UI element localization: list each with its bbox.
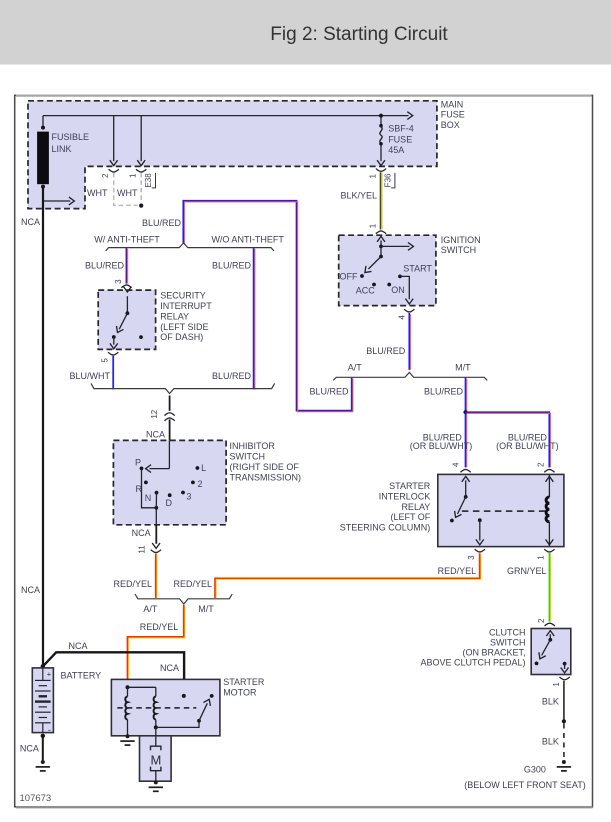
svg-text:SECURITY: SECURITY [160, 291, 206, 301]
svg-text:P: P [135, 457, 141, 467]
wire NCA into inhibitor switch [146, 419, 170, 440]
svg-text:ON: ON [391, 285, 405, 295]
svg-text:4: 4 [398, 315, 407, 320]
wire WHT (right) [117, 173, 141, 203]
connector pin 2 (fuse box, WHT) [101, 169, 119, 178]
svg-text:M/T: M/T [198, 604, 214, 614]
svg-text:5: 5 [101, 358, 110, 363]
svg-text:BLK: BLK [542, 697, 559, 707]
svg-text:(ON BRACKET,: (ON BRACKET, [462, 648, 525, 658]
wire NCA (battery to ground) [20, 734, 45, 760]
connector 11 [137, 545, 161, 554]
svg-text:Fig 2: Starting Circuit: Fig 2: Starting Circuit [270, 24, 448, 45]
ground (battery) [36, 760, 50, 771]
svg-text:11: 11 [137, 545, 146, 554]
svg-text:ABOVE CLUTCH PEDAL): ABOVE CLUTCH PEDAL) [420, 658, 525, 668]
svg-text:W/O ANTI-THEFT: W/O ANTI-THEFT [211, 234, 284, 244]
fuse SBF-4 45A [377, 114, 414, 166]
svg-text:RED/YEL: RED/YEL [113, 579, 152, 589]
ignition switch (dashed box) [339, 235, 481, 305]
node: WHT junction [139, 204, 143, 208]
svg-text:2: 2 [537, 618, 546, 623]
connector pin 1 (fuse box, WHT) [129, 169, 147, 178]
connector pin 4 (ignition switch) [398, 309, 415, 320]
svg-text:STARTER: STARTER [223, 677, 265, 687]
svg-text:NCA: NCA [132, 528, 151, 538]
svg-text:BLU/RED: BLU/RED [366, 346, 406, 356]
wire BLK/YEL (fuse to ignition switch) [340, 172, 381, 229]
svg-text:(RIGHT SIDE OF: (RIGHT SIDE OF [230, 462, 300, 472]
interlock relay coil [546, 474, 554, 546]
svg-text:107673: 107673 [20, 793, 52, 804]
wire BLU/RED (feed loop to anti-theft brace and ignition A/T branch) [142, 201, 353, 412]
svg-text:NCA: NCA [146, 430, 165, 440]
svg-text:SBF-4: SBF-4 [388, 124, 414, 134]
svg-text:BLK/YEL: BLK/YEL [340, 190, 377, 200]
svg-text:(OR BLU/WHT): (OR BLU/WHT) [410, 441, 473, 451]
wire WHT (left) [87, 173, 137, 206]
wire RED/YEL (to starter motor) [128, 605, 186, 679]
svg-text:STARTER: STARTER [389, 481, 431, 491]
svg-text:START: START [403, 263, 432, 273]
motor M symbol [150, 746, 161, 781]
svg-text:NCA: NCA [160, 663, 179, 673]
svg-text:-: - [48, 725, 51, 735]
connector pin 3 (starter interlock relay) [467, 549, 485, 560]
svg-text:(LEFT OF: (LEFT OF [390, 512, 430, 522]
svg-text:FUSE: FUSE [388, 134, 412, 144]
security relay switch [110, 287, 143, 349]
starter interlock relay (box) [340, 474, 564, 546]
wire BLU/RED (ignition to A/T-M/T brace) [366, 313, 410, 370]
svg-text:RELAY: RELAY [160, 311, 189, 321]
brace: W/ ANTI-THEFT vs W/O ANTI-THEFT split [94, 234, 284, 251]
svg-text:INTERLOCK: INTERLOCK [379, 492, 431, 502]
svg-text:WHT: WHT [117, 188, 138, 198]
wire GRN/YEL (relay to clutch switch) [507, 553, 551, 622]
svg-text:2: 2 [101, 173, 110, 178]
svg-text:RED/YEL: RED/YEL [140, 622, 179, 632]
figure number 107673 [20, 793, 52, 804]
svg-text:MOTOR: MOTOR [223, 688, 257, 698]
svg-text:WHT: WHT [87, 188, 108, 198]
svg-text:OF DASH): OF DASH) [160, 332, 203, 342]
svg-text:BLU/WHT: BLU/WHT [70, 371, 111, 381]
svg-text:1: 1 [369, 223, 378, 228]
svg-text:N: N [145, 493, 152, 503]
svg-text:3: 3 [467, 555, 476, 560]
svg-text:A/T: A/T [143, 604, 158, 614]
wire to inline connector 12 [169, 396, 171, 411]
brace: A/T vs M/T split under ignition switch [333, 362, 487, 380]
svg-text:W/ ANTI-THEFT: W/ ANTI-THEFT [94, 234, 160, 244]
ground (starter motor) [120, 734, 134, 745]
connector pin 1 (ignition switch) [369, 223, 386, 234]
svg-text:BATTERY: BATTERY [61, 670, 102, 680]
starter motor switch [154, 694, 214, 730]
svg-text:BLU/RED: BLU/RED [309, 387, 349, 397]
ground G300 [464, 760, 586, 790]
svg-text:R: R [136, 484, 143, 494]
wire BLU/RED (OR BLU/WHT) to relay pin 2 [466, 412, 559, 467]
ground (motor) [149, 780, 163, 791]
svg-text:BLU/RED: BLU/RED [424, 387, 464, 397]
svg-text:3: 3 [186, 492, 191, 502]
wire BLU/WHT [70, 356, 114, 390]
header band [0, 0, 611, 65]
svg-text:BLK: BLK [542, 736, 559, 746]
connector pin 2 (clutch switch) [537, 618, 555, 626]
svg-text:12: 12 [150, 409, 159, 418]
svg-text:1: 1 [536, 555, 545, 560]
svg-text:A/T: A/T [348, 362, 363, 372]
interlock relay dashed link [462, 510, 547, 512]
node: BLK splice [562, 719, 566, 723]
svg-text:E38: E38 [144, 173, 153, 188]
svg-text:BLU/RED: BLU/RED [212, 371, 252, 381]
wire: battery feed bus inside fuse box [43, 112, 413, 166]
starter motor (box) [111, 677, 264, 736]
arrow feed to other circuits [43, 197, 74, 205]
svg-text:G300: G300 [524, 764, 546, 774]
svg-text:OFF: OFF [340, 271, 358, 281]
connector pin 5 (security interrupt relay) [101, 352, 119, 363]
svg-text:NCA: NCA [21, 217, 40, 227]
svg-text:SWITCH: SWITCH [230, 452, 266, 462]
svg-text:INTERRUPT: INTERRUPT [160, 301, 212, 311]
node: M/T branch junction [463, 410, 467, 414]
svg-text:BLU/RED: BLU/RED [212, 260, 252, 270]
connector E38 label [144, 173, 156, 188]
ignition switch internals [340, 236, 433, 304]
svg-text:MAIN: MAIN [441, 100, 464, 110]
svg-text:1: 1 [369, 174, 378, 179]
svg-text:FUSE: FUSE [441, 110, 465, 120]
connector pin 1 (clutch switch) [552, 677, 570, 687]
wire RED/YEL (A/T from inhibitor) [113, 554, 157, 598]
svg-text:STEERING COLUMN): STEERING COLUMN) [340, 523, 431, 533]
svg-text:1: 1 [129, 173, 138, 178]
svg-text:RED/YEL: RED/YEL [438, 566, 477, 576]
svg-text:3: 3 [114, 279, 123, 284]
connector pin 1 (starter interlock relay) [536, 549, 554, 560]
security interrupt relay (dashed box) [98, 290, 212, 349]
wire BLK (clutch switch down) [542, 681, 564, 722]
brace: anti-theft paths rejoin [91, 383, 275, 393]
svg-text:RELAY: RELAY [401, 502, 430, 512]
svg-text:INHIBITOR: INHIBITOR [230, 441, 276, 451]
starter motor internal dashed link [117, 707, 196, 709]
inhibitor switch (dashed box) [113, 440, 301, 524]
connector F36 label [384, 173, 395, 188]
svg-text:FUSIBLE: FUSIBLE [52, 132, 90, 142]
clutch switch internals [535, 631, 569, 673]
connector pin 4 (starter interlock relay) [451, 462, 470, 472]
wire NCA (battery to starter motor) [43, 641, 184, 679]
brace: A/T and M/T starter feeds rejoin [135, 594, 232, 614]
inhibitor switch internals [135, 440, 206, 524]
svg-text:M/T: M/T [455, 362, 471, 372]
svg-text:NCA: NCA [20, 743, 39, 753]
fusible link [37, 126, 89, 189]
wire BLU/RED (W/O anti-theft branch) [212, 248, 255, 390]
wire BLK (dashed to G300) [542, 724, 564, 759]
wire RED/YEL (M/T from interlock relay) [173, 553, 481, 598]
wire NCA (fusible link to battery) [21, 188, 43, 666]
svg-text:SWITCH: SWITCH [490, 638, 526, 648]
wire BLU/RED (W/ anti-theft branch) [85, 248, 128, 284]
main fuse box (dashed) [28, 100, 465, 209]
svg-text:M: M [150, 753, 161, 768]
svg-text:NCA: NCA [68, 641, 87, 651]
wire BLU/RED (M/T branch) [424, 378, 467, 413]
battery [32, 664, 101, 735]
svg-text:BOX: BOX [441, 120, 460, 130]
clutch switch (box) [420, 628, 570, 675]
svg-text:L: L [201, 463, 206, 473]
inline connector 12 [150, 409, 175, 421]
svg-text:(LEFT SIDE: (LEFT SIDE [160, 322, 208, 332]
svg-text:+: + [47, 669, 52, 678]
connector pin 2 (starter interlock relay) [537, 462, 555, 472]
connector pin 3 (security interrupt relay) [114, 279, 132, 288]
svg-text:4: 4 [451, 462, 460, 467]
svg-text:(BELOW LEFT FRONT SEAT): (BELOW LEFT FRONT SEAT) [464, 780, 586, 790]
svg-text:(OR BLU/WHT): (OR BLU/WHT) [496, 441, 559, 451]
wire NCA out of inhibitor switch [132, 525, 160, 549]
svg-text:D: D [166, 498, 173, 508]
svg-text:NCA: NCA [21, 585, 40, 595]
svg-text:2: 2 [537, 462, 546, 467]
svg-text:1: 1 [552, 682, 561, 687]
svg-text:BLU/RED: BLU/RED [142, 218, 182, 228]
svg-text:45A: 45A [388, 145, 404, 155]
svg-text:CLUTCH: CLUTCH [489, 628, 526, 638]
starter motor solenoid coils [125, 685, 156, 736]
starter motor M sub-box [140, 727, 172, 781]
svg-text:TRANSMISSION): TRANSMISSION) [230, 473, 302, 483]
interlock relay switch [450, 476, 484, 544]
svg-text:BLU/RED: BLU/RED [85, 260, 125, 270]
svg-text:GRN/YEL: GRN/YEL [507, 566, 547, 576]
svg-text:SWITCH: SWITCH [441, 245, 477, 255]
svg-text:IGNITION: IGNITION [441, 235, 481, 245]
svg-text:2: 2 [197, 479, 202, 489]
svg-text:ACC: ACC [356, 286, 376, 296]
connector pin 1 (fuse box, F36) [369, 169, 387, 179]
svg-text:RED/YEL: RED/YEL [173, 579, 212, 589]
wire BLU/RED (OR BLU/WHT) to relay pin 4 [410, 412, 473, 467]
svg-text:LINK: LINK [52, 144, 72, 154]
svg-text:F36: F36 [384, 173, 393, 187]
